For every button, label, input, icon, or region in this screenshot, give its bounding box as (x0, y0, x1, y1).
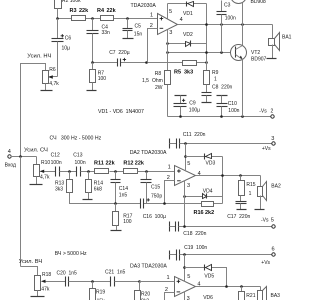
terminal +Vs 6 (261, 246, 275, 266)
resistor R8 (142, 71, 171, 91)
svg-text:100n: 100n (228, 108, 239, 114)
ground BA1 (267, 58, 277, 60)
svg-text:4,7k: 4,7k (40, 175, 50, 181)
capacitor C15 (141, 172, 163, 204)
diode VD1 (183, 2, 194, 18)
svg-text:C7 220µ: C7 220µ (109, 50, 130, 56)
svg-text:C12: C12 (51, 153, 60, 159)
svg-text:3: 3 (271, 136, 274, 142)
junction pin3/VD4 (183, 195, 186, 198)
svg-text:100: 100 (98, 76, 107, 82)
wire bus bottom corner (21, 267, 38, 276)
svg-text:C9: C9 (189, 100, 196, 106)
capacitor C9 (174, 96, 201, 117)
junction pin5/VD3 (184, 155, 187, 158)
junction R4/C5 (126, 17, 129, 20)
svg-text:100: 100 (123, 219, 132, 225)
svg-text:R4: R4 (97, 8, 105, 14)
resistor R19 (90, 282, 106, 300)
svg-text:Вход: Вход (5, 162, 16, 168)
capacitor C21 (105, 270, 175, 287)
svg-text:DA3 TDA2030A: DA3 TDA2030A (130, 264, 167, 270)
svg-text:R2 100k: R2 100k (62, 0, 81, 4)
svg-text:R5: R5 (174, 70, 181, 76)
svg-text:-Vs: -Vs (261, 218, 269, 224)
svg-text:R11: R11 (94, 160, 104, 166)
transistor VT2 (231, 25, 267, 117)
capacitor C13 (73, 153, 94, 177)
svg-text:R8: R8 (155, 71, 162, 77)
op-amp DA3 (165, 274, 201, 296)
capacitor C20 (57, 271, 111, 287)
junction rail/C10 (220, 115, 223, 118)
potentiometer R6 (43, 67, 60, 87)
node A junction (56, 17, 59, 20)
svg-text:C20 1n5: C20 1n5 (57, 271, 78, 277)
junction output/R21 (240, 285, 243, 288)
junction C4/R7/feedback (91, 61, 94, 64)
svg-text:R15: R15 (246, 182, 255, 188)
svg-text:C6: C6 (65, 35, 72, 41)
diode VD4 (203, 188, 213, 198)
speaker BA2 (258, 176, 281, 210)
resistor R16 (194, 202, 215, 217)
svg-text:4: 4 (180, 17, 183, 23)
svg-text:C17 220n: C17 220n (227, 214, 250, 220)
junction feedback/pin2 (145, 61, 148, 64)
ground C8 (202, 102, 212, 104)
svg-text:47k: 47k (41, 287, 50, 293)
junction output/VD5 (225, 285, 228, 288)
capacitor C17 (227, 202, 250, 221)
wire pin3 vertical x=167.6 (167, 30, 169, 117)
resistor R3 (70, 8, 90, 21)
junction pin3/base line (166, 51, 169, 54)
svg-text:1: 1 (249, 191, 252, 197)
svg-text:R18: R18 (42, 272, 51, 278)
svg-text:C19 100n: C19 100n (184, 245, 207, 251)
resistor R14 (86, 172, 104, 200)
junction C12/R13 (68, 170, 71, 173)
svg-text:СЧ 300 Hz - 5000 Hz: СЧ 300 Hz - 5000 Hz (50, 135, 102, 141)
junction C13/R14 (87, 170, 90, 173)
capacitor C12 (51, 153, 77, 177)
wire +Vs rail y=143.4 (180, 143, 272, 145)
wire VD2 line y=43.6 (168, 43, 207, 45)
svg-text:VD6: VD6 (203, 295, 213, 300)
wire top line y=3.7 (168, 3, 207, 5)
wire pin2 feedback drop (148, 29, 158, 63)
svg-text:Усил. СЧ: Усил. СЧ (24, 147, 48, 153)
svg-text:4,7k: 4,7k (49, 81, 59, 87)
junction pin5/VD5 (183, 266, 186, 269)
svg-text:15n: 15n (134, 32, 143, 38)
diode VD3 (205, 154, 216, 167)
junction output/rail (205, 23, 208, 26)
svg-text:C21 1n5: C21 1n5 (105, 270, 126, 276)
wire pin3 stem DA2 (184, 181, 186, 227)
svg-text:R9: R9 (212, 70, 219, 76)
wire -Vs rail y=226.3 (179, 226, 273, 228)
svg-text:2W: 2W (155, 85, 163, 91)
svg-text:C15: C15 (151, 184, 160, 190)
svg-text:2k2: 2k2 (205, 210, 214, 216)
svg-text:C10: C10 (228, 101, 237, 107)
ground BA2 (255, 209, 265, 211)
terminal input 4 (5, 149, 16, 168)
svg-text:BA3: BA3 (271, 293, 281, 299)
svg-text:VD5: VD5 (204, 273, 214, 279)
junction output/x223 (221, 174, 224, 177)
wire pin2 drop (165, 181, 175, 204)
diode VD2 (183, 32, 193, 47)
wire output line y=24 (178, 24, 273, 26)
svg-text:-Vs: -Vs (259, 108, 267, 114)
ground R7 (87, 90, 97, 92)
svg-text:R21: R21 (246, 293, 255, 299)
svg-text:C3: C3 (224, 3, 231, 9)
wire -Vs rail y=116.6 (168, 116, 272, 118)
wire VD5 line (185, 268, 227, 287)
svg-text:BA2: BA2 (271, 184, 281, 190)
wire bus top corner (21, 64, 46, 157)
svg-text:BD907: BD907 (251, 57, 267, 63)
svg-text:5: 5 (187, 161, 190, 167)
resistor R21 (239, 287, 256, 300)
svg-text:10µ: 10µ (62, 45, 71, 51)
wire R11-R12 (110, 171, 124, 173)
capacitor C10 (217, 96, 240, 117)
wire pin1 DA3 (140, 281, 175, 283)
svg-text:C8 220n: C8 220n (212, 85, 233, 91)
svg-text:VD4: VD4 (203, 188, 213, 194)
svg-text:C18 220n: C18 220n (183, 231, 206, 237)
svg-text:C16 100µ: C16 100µ (143, 214, 166, 220)
svg-text:3k3: 3k3 (55, 186, 63, 192)
svg-text:Усил. ВЧ: Усил. ВЧ (19, 259, 43, 265)
svg-text:1: 1 (168, 165, 171, 171)
svg-text:1: 1 (214, 76, 217, 82)
junction fb/pin2 (163, 202, 166, 205)
wire pin2 drop DA3 (165, 293, 175, 300)
capacitor C4 (87, 19, 111, 63)
potentiometer R10 (34, 157, 56, 181)
svg-text:Ohm: Ohm (152, 78, 163, 84)
diode VD5 (204, 265, 214, 280)
wire input line y=18.4 (58, 18, 158, 20)
junction output/R15 (239, 174, 242, 177)
op-amp DA1 (150, 9, 183, 36)
svg-text:+Vs: +Vs (262, 146, 271, 152)
wire feedback line y=203.8 (144, 203, 223, 205)
svg-text:VD3: VD3 (206, 161, 216, 167)
resistor R15 (239, 176, 256, 202)
speaker BA1 (269, 25, 292, 59)
transistor VT1 (231, 0, 267, 25)
svg-text:DA2 TDA2030A: DA2 TDA2030A (130, 150, 167, 156)
svg-text:5: 5 (169, 9, 172, 15)
wire right vertical x=223 (222, 157, 224, 204)
svg-text:R6: R6 (49, 67, 56, 73)
wire VD4 line (185, 196, 223, 198)
junction rail/base line (205, 51, 208, 54)
potentiometer R18 (35, 272, 66, 293)
capacitor C14 (111, 172, 129, 204)
svg-text:33n: 33n (102, 30, 111, 36)
junction rail/pin5 DA3 (183, 253, 186, 256)
resistor R2 (55, 0, 82, 19)
svg-text:R12: R12 (123, 160, 133, 166)
junction rail/VT chain (241, 115, 244, 118)
ground R6 (41, 84, 53, 91)
svg-text:VD1: VD1 (183, 11, 193, 17)
svg-text:BA1: BA1 (282, 34, 292, 40)
svg-text:100n: 100n (75, 160, 86, 166)
svg-text:100n: 100n (51, 160, 62, 166)
svg-text:4: 4 (8, 149, 11, 155)
junction rail/pin3 DA2 (183, 225, 186, 228)
svg-text:ВЧ > 5000 Hz: ВЧ > 5000 Hz (55, 251, 87, 257)
speaker BA3 (258, 287, 281, 300)
junction R11/C14 (114, 170, 117, 173)
svg-text:1: 1 (167, 275, 170, 281)
svg-text:6: 6 (272, 246, 275, 252)
junction pin3/VD2 (166, 42, 169, 45)
svg-text:1n5: 1n5 (119, 193, 128, 199)
svg-text:2: 2 (165, 287, 168, 293)
capacitor C19 (170, 245, 208, 261)
svg-text:VT2: VT2 (251, 50, 260, 56)
junction R3/C4 (91, 17, 94, 20)
ground R14 (83, 199, 93, 201)
wire pin5 stem DA3 (184, 255, 186, 282)
svg-text:750p: 750p (151, 194, 162, 200)
ground C5 (123, 38, 134, 40)
junction output/VT chain (241, 23, 244, 26)
capacitor C18 (170, 222, 207, 237)
junction C20/R19 (91, 280, 94, 283)
wire pin3 stem DA3 (184, 292, 186, 300)
capacitor C3 (217, 1, 237, 53)
wire output DA2 (196, 175, 261, 177)
resistor R11 (94, 160, 116, 173)
svg-text:VD1 - VD6 1N4007: VD1 - VD6 1N4007 (98, 109, 144, 115)
svg-text:1,5: 1,5 (142, 78, 149, 84)
svg-text:C5: C5 (135, 23, 142, 29)
wire +Vs rail y=254.9 (180, 254, 273, 256)
svg-text:100n: 100n (225, 16, 236, 22)
svg-text:R19: R19 (96, 290, 105, 296)
terminal -Vs 5 (261, 218, 275, 229)
svg-text:BD908: BD908 (251, 0, 267, 5)
capacitor C16 (141, 198, 166, 220)
wire pin5 stem (167, 4, 169, 19)
svg-text:VD2: VD2 (183, 32, 193, 38)
wire VD3 line (186, 156, 223, 158)
svg-text:22k: 22k (79, 8, 89, 14)
capacitor C7 (109, 50, 130, 66)
ground R10 (30, 177, 43, 185)
svg-text:Усил. НЧ: Усил. НЧ (27, 53, 51, 59)
resistor R7 (90, 63, 107, 91)
svg-text:+Vs: +Vs (261, 260, 270, 266)
svg-text:22k: 22k (135, 160, 145, 166)
wire base line y=52 (168, 52, 236, 54)
junction bus/input (19, 155, 22, 158)
resistor R13 (55, 172, 141, 204)
junction fb/R17C14 (114, 202, 117, 205)
svg-text:100µ: 100µ (189, 107, 200, 113)
svg-text:3: 3 (187, 296, 190, 300)
terminal +Vs 3 (262, 136, 275, 152)
svg-text:3: 3 (187, 183, 190, 189)
resistor R4 (97, 8, 117, 21)
resistor R20 (135, 282, 151, 300)
svg-text:C11 220n: C11 220n (183, 132, 206, 138)
wire output DA3 (196, 286, 261, 288)
svg-text:R3: R3 (70, 8, 77, 14)
wire input to bus (11, 156, 37, 158)
ground R17 (111, 230, 122, 232)
junction rail/C9 (179, 115, 182, 118)
wire right rail x=206.7 (206, 4, 208, 71)
svg-text:2: 2 (271, 108, 274, 114)
ground C17 (237, 209, 247, 211)
terminal -Vs 2 (259, 108, 274, 118)
svg-text:3k3: 3k3 (184, 70, 193, 76)
wire pin5 stem DA2 (185, 144, 187, 172)
junction C3col/base line (220, 51, 223, 54)
junction output/C3 (220, 23, 223, 26)
capacitor C6 (52, 19, 72, 77)
op-amp DA2 (167, 161, 201, 189)
resistor R17 (113, 204, 133, 231)
resistor R12 (123, 160, 145, 173)
capacitor C8 (202, 85, 233, 103)
svg-text:C14: C14 (119, 186, 128, 192)
capacitor C11 (170, 132, 206, 148)
wire feedback line y=62.5 (93, 62, 118, 64)
wire R12 to pin1 (138, 171, 175, 173)
svg-text:R16: R16 (194, 210, 204, 216)
svg-text:5: 5 (271, 218, 274, 224)
junction rail/pin5 (184, 142, 187, 145)
svg-text:TDA2030A: TDA2030A (131, 3, 157, 9)
svg-text:R20: R20 (141, 292, 150, 298)
svg-text:R10: R10 (41, 160, 50, 166)
capacitor C5 (123, 19, 143, 39)
svg-text:3: 3 (169, 30, 172, 36)
svg-text:5: 5 (187, 274, 190, 280)
svg-text:C13: C13 (73, 153, 82, 159)
junction feedback/right rail (205, 61, 208, 64)
wire input bus x=21 (20, 157, 22, 267)
svg-text:6k8: 6k8 (94, 186, 102, 192)
svg-text:22k: 22k (107, 8, 117, 14)
svg-text:22k: 22k (106, 160, 116, 166)
junction pin1line/C15 (145, 170, 148, 173)
ground R18 (31, 291, 45, 297)
junction C21/R20 (138, 280, 141, 283)
resistor R5 (174, 61, 197, 76)
resistor R9 (204, 70, 219, 85)
svg-text:1: 1 (150, 13, 153, 19)
